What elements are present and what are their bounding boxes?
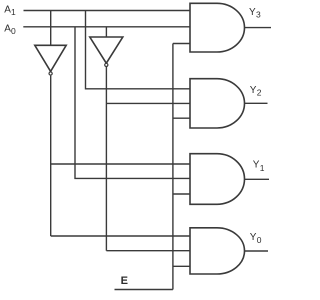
svg-text:1: 1 <box>260 163 265 173</box>
inverter U1 bubble <box>49 72 52 75</box>
wire E horizontal <box>115 289 173 291</box>
wire A1 horizontal <box>24 10 191 12</box>
svg-text:Y: Y <box>250 85 257 96</box>
svg-text:Y: Y <box>249 7 256 18</box>
wire A0 to inverter U2 input <box>105 27 107 37</box>
inverter U2 triangle <box>90 37 123 63</box>
wire U1 output vertical <box>50 76 52 236</box>
inverter U2 bubble <box>105 63 108 66</box>
AND gate Y0 <box>190 228 245 274</box>
AND gate Y2 <box>190 79 245 128</box>
wire U1 output to gate Y1 input <box>51 163 190 165</box>
wire U2 output to gate Y2 input <box>106 102 190 104</box>
wire U2 output vertical <box>105 66 107 251</box>
svg-text:3: 3 <box>256 10 261 20</box>
inverter U1 triangle <box>35 45 66 71</box>
svg-text:0: 0 <box>11 26 16 36</box>
svg-text:0: 0 <box>257 235 262 245</box>
wire output Y0 <box>245 250 269 252</box>
wire E to gate Y2 input <box>173 117 190 119</box>
wire output Y1 <box>244 178 269 180</box>
wire A1 branch to gate Y2 input <box>86 11 191 89</box>
svg-text:E: E <box>121 275 128 287</box>
wire E to gate Y1 input <box>173 193 190 195</box>
wire E to gate Y0 input <box>173 265 190 267</box>
wire U2 output to gate Y0 input <box>106 250 190 252</box>
wire A0 branch to gate Y1 input <box>75 27 190 179</box>
wire U1 output to gate Y0 input <box>51 235 190 237</box>
wire E vertical <box>172 44 174 290</box>
AND gate Y3 <box>190 3 245 52</box>
wire A0 horizontal <box>23 26 190 28</box>
svg-text:1: 1 <box>11 7 16 17</box>
wire output Y3 <box>245 27 272 29</box>
AND gate Y1 <box>190 154 245 205</box>
svg-text:Y: Y <box>250 232 257 243</box>
wire A1 to inverter U1 input <box>50 11 52 46</box>
wire output Y2 <box>245 102 268 104</box>
wire E to gate Y3 input <box>173 43 190 45</box>
svg-text:Y: Y <box>253 160 260 171</box>
svg-text:2: 2 <box>257 88 262 98</box>
